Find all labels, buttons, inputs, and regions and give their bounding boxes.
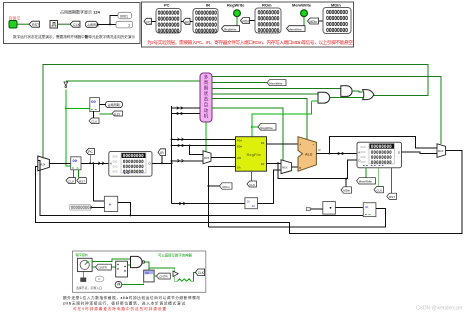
wire pin to reg MDR1 <box>310 208 323 210</box>
tunnel RST <box>29 21 40 27</box>
wire MDR loop back <box>208 208 385 227</box>
svg-text:数字运行状态在这里演示，需要按称开储器中断单元此数字情况走向: 数字运行状态在这里演示，需要按称开储器中断单元此数字情况走向历史演示 <box>13 34 135 39</box>
wire PC down to adder <box>93 163 104 201</box>
tunnel ROm (main) <box>220 183 233 189</box>
wire MDin stub <box>345 179 347 187</box>
wire dial to CNTR <box>92 266 95 268</box>
wire probe PC to IR tunnel <box>181 20 193 22</box>
svg-text:R2#: R2# <box>237 144 242 148</box>
title PC <box>164 3 170 8</box>
mux ALUSrcB <box>281 160 292 174</box>
svg-text:RST: RST <box>389 195 395 199</box>
wire rt field to regfile R2# and mux <box>172 144 236 154</box>
caption line 2 <box>63 300 185 305</box>
svg-text:A: A <box>110 162 112 166</box>
wire PCWrite loop (outer dark-green rectangle) <box>43 65 428 158</box>
adder PC+1 <box>104 196 117 211</box>
wire B value down to RAM data-in <box>278 160 357 179</box>
svg-text:MemWrite: MemWrite <box>269 81 283 85</box>
watermark CSDN <box>416 306 463 312</box>
wire ROm tunnel to probe <box>250 20 256 22</box>
tunnel RST (PC) <box>77 178 87 184</box>
wire extender to B mux input2 <box>258 170 282 203</box>
wire regfile R1 to ALU A <box>267 143 299 145</box>
title RegWrite <box>227 3 245 8</box>
RAM (data memory) <box>357 142 402 168</box>
wire clock to CLK tunnel <box>58 23 71 25</box>
node adder out join <box>129 214 131 216</box>
box2 red caption <box>147 39 353 46</box>
svg-text:003: 003 <box>113 170 118 174</box>
svg-text:CSDN @wendercser: CSDN @wendercser <box>416 306 463 312</box>
title MDin <box>331 3 341 8</box>
svg-text:IR: IR <box>206 3 210 8</box>
wire A1 out to O1 <box>330 97 363 99</box>
tunnel 占用周期 (counter out) <box>106 101 123 107</box>
svg-text:+: + <box>109 203 112 209</box>
tunnel MDin (main) <box>341 187 352 193</box>
node bus taps <box>171 138 173 164</box>
title ROm <box>262 3 272 8</box>
top-left instruction box frame <box>4 3 141 44</box>
tunnel MemWrite <box>287 26 306 32</box>
svg-text:MUX: MUX <box>438 150 444 153</box>
wire buf1 to reg2 <box>335 206 363 208</box>
svg-text:RegWrite: RegWrite <box>227 3 245 8</box>
svg-text:002: 002 <box>361 155 366 159</box>
svg-text:A: A <box>300 143 302 147</box>
tunnel RST (RAM) <box>387 193 397 199</box>
tunnel CLK <box>70 21 81 27</box>
svg-text:可以直接写数字的神器: 可以直接写数字的神器 <box>158 253 193 258</box>
tunnel CNTR (gadget left) <box>96 264 112 270</box>
svg-text:ROm: ROm <box>223 185 231 189</box>
svg-text:32: 32 <box>252 204 256 208</box>
svg-text:CLK: CLK <box>249 183 255 187</box>
tunnel MemWrite (on wire) <box>267 80 286 86</box>
caption line 3 (red) <box>73 306 166 311</box>
probe ROm 32-bit <box>255 8 281 33</box>
wire PC enable vertical (bright green) <box>66 90 71 167</box>
gate NOT (small, on vertical) <box>64 82 68 88</box>
wire MemWrite out <box>212 82 267 84</box>
wire MDin tunnel to probe <box>319 20 324 22</box>
wire comparator to nand lower input <box>128 264 131 266</box>
svg-text:额外还是1位入力数指伴格振，zlib时钟比较运位尚可以调节分: 额外还是1位入力数指伴格振，zlib时钟比较运位尚可以调节分频断停骤改 <box>63 295 200 300</box>
probe PC 32-bit <box>156 9 181 34</box>
svg-text:RegFile: RegFile <box>247 152 262 157</box>
wire mux out to PC <box>49 162 70 164</box>
svg-text:MDin: MDin <box>310 20 318 24</box>
svg-text:MDin: MDin <box>331 3 341 8</box>
svg-text:ALU: ALU <box>305 153 313 157</box>
tunnel MDin <box>308 18 319 24</box>
svg-text:MemWrite: MemWrite <box>289 27 303 31</box>
label 自复位 (red) <box>9 15 21 21</box>
svg-text:状: 状 <box>204 90 209 96</box>
svg-text:RST: RST <box>32 23 40 27</box>
svg-text:CLK: CLK <box>198 271 205 275</box>
svg-text:00: 00 <box>91 99 96 104</box>
wire state machine west inputs from IR bus <box>172 107 200 115</box>
svg-text:CLK: CLK <box>376 188 382 192</box>
svg-text:占用周期: 占用周期 <box>87 22 99 27</box>
svg-text:MUX: MUX <box>282 167 288 170</box>
wire B mux to ALU B <box>292 166 298 168</box>
title MemWrite <box>292 3 312 8</box>
mux MemtoReg (right) <box>437 144 446 158</box>
svg-text:CLK: CLK <box>91 120 97 124</box>
register PC <box>71 157 81 170</box>
title IR <box>206 3 210 8</box>
svg-text:A: A <box>358 151 360 155</box>
title 占用周期数字显示 <box>60 9 101 15</box>
wire regfile DA from result bus <box>208 167 235 227</box>
probe MDin 32-bit <box>323 8 351 34</box>
svg-text:CNTR: CNTR <box>99 266 108 270</box>
svg-text:选择节点，引脚入口: 选择节点，引脚入口 <box>76 285 102 290</box>
node MDin tap <box>345 178 347 180</box>
or gate O1 <box>363 90 374 100</box>
wire imm field to bit extender <box>172 202 245 205</box>
wire to ROm tunnel <box>208 185 219 187</box>
wire ROM out to IR bus <box>152 162 172 164</box>
wire RAM D out to result mux <box>402 152 438 153</box>
wire LED to RegWrite tunnel <box>236 17 238 26</box>
svg-text:RST: RST <box>114 112 120 116</box>
wire to and gate A2 <box>212 87 341 89</box>
wire to and gate A1 <box>212 93 318 95</box>
svg-text:PC: PC <box>146 20 151 24</box>
wire result mux out loop to PCSrc mux input2 <box>36 151 463 234</box>
svg-text:MemWrite: MemWrite <box>359 180 373 184</box>
wire RAM CLK stub <box>377 168 379 187</box>
wire RegWrite (bright green L into regfile) <box>252 102 312 137</box>
tunnel CLK (RAM) <box>374 187 384 193</box>
oval marker <box>95 276 104 282</box>
svg-text:PC: PC <box>164 3 170 8</box>
wire MemtoReg (state machine to RAM mux select) <box>212 77 441 145</box>
control unit 多周期状态自动机 (magenta box) <box>200 73 212 122</box>
label 程序控制 (green) <box>76 252 88 257</box>
resistor (green zigzag) <box>178 279 192 281</box>
constant 1 probe <box>70 205 93 211</box>
tunnel IR <box>183 18 190 24</box>
tunnel 占用周期 <box>86 21 100 27</box>
wire A2 out to O1 <box>352 90 362 93</box>
svg-text:MUX: MUX <box>204 157 210 160</box>
wire ALUOp down to ALU <box>212 99 307 141</box>
wire constant to adder <box>91 206 105 208</box>
comparator component <box>116 261 128 277</box>
input pin RST (green square) <box>9 21 17 29</box>
tunnel PC <box>144 18 152 24</box>
wire counter to CLK tunnel <box>93 111 95 118</box>
wire result bypass above RAM <box>329 137 437 154</box>
tunnel ROm <box>241 18 251 24</box>
gadget box frame <box>72 251 205 292</box>
wire LED to MemWrite tunnel <box>303 17 305 26</box>
svg-text:CNTR: CNTR <box>159 275 168 279</box>
svg-text:ROm: ROm <box>243 20 251 24</box>
wire PC to ROM with taps <box>81 162 111 165</box>
probe IR 32-bit <box>193 9 218 34</box>
svg-text:可在9时钟源最爱去除电路中的这些时钟源设置: 可在9时钟源最爱去除电路中的这些时钟源设置 <box>73 306 166 311</box>
node counter branch <box>65 107 67 109</box>
tunnel PC (above wire) <box>86 149 95 155</box>
wire mux to regfile W# <box>211 156 236 158</box>
wire clock to counter2 <box>122 279 144 285</box>
wire rs field to regfile R1# <box>172 138 236 141</box>
label R on ALU out <box>319 148 321 152</box>
svg-text:W#: W# <box>237 156 241 160</box>
svg-text:IR: IR <box>160 151 164 155</box>
svg-text:IR: IR <box>185 20 189 24</box>
svg-text:自复位: 自复位 <box>9 15 21 21</box>
tunnel IR (main) <box>158 149 166 156</box>
wire 占用周期 to probes <box>98 16 119 26</box>
tunnel CNTR2 <box>157 273 171 279</box>
svg-text:16: 16 <box>247 200 251 204</box>
nand gate (gadget) <box>131 256 145 267</box>
svg-text:R1#: R1# <box>237 139 242 143</box>
tunnel RegWrite <box>222 26 240 32</box>
tunnel CLK (counter) <box>89 118 99 124</box>
wire dial down to ground <box>82 272 84 278</box>
svg-text:1: 1 <box>128 23 130 27</box>
clock source (gadget small circle) <box>115 281 122 287</box>
wire A1 second input (bright) <box>311 100 318 102</box>
wire PC+1 long line <box>38 160 364 215</box>
svg-text:RegWrite: RegWrite <box>260 126 273 130</box>
wire IR tunnel stub <box>161 156 163 165</box>
probe hex 0001 <box>118 12 132 18</box>
and gate A1 <box>318 92 330 103</box>
svg-text:0001: 0001 <box>120 14 128 18</box>
wire counter2 top to buffer <box>149 268 175 274</box>
wire counter to tunnel <box>100 104 106 106</box>
svg-text:PC: PC <box>88 150 93 154</box>
wire ALU out to RAM A with taps <box>316 152 357 155</box>
ALU (orange) <box>298 137 316 172</box>
svg-text:001: 001 <box>361 150 366 154</box>
svg-text:00: 00 <box>145 271 149 275</box>
svg-text:机: 机 <box>204 112 209 119</box>
svg-text:00: 00 <box>365 205 369 209</box>
svg-text:B: B <box>300 166 302 170</box>
node ROm tap <box>207 185 209 187</box>
tunnel CLK (gadget) <box>195 269 204 276</box>
caption 选择节点 引脚入口 <box>76 285 102 290</box>
svg-text:zlib无限时钟连接运行，极好断位置筑，进入本步调试模式演试: zlib无限时钟连接运行，极好断位置筑，进入本步调试模式演试 <box>63 300 185 305</box>
svg-text:为2号实验顶层，需要输入PC、IR、寄存器文件写入端口ROm: 为2号实验顶层，需要输入PC、IR、寄存器文件写入端口ROm、内存写入端口MDi… <box>147 39 353 46</box>
svg-text:占用周期数字显示 124: 占用周期数字显示 124 <box>60 9 101 15</box>
counter CYC (cycle counter) <box>90 98 100 112</box>
clock component <box>50 21 58 29</box>
tunnel RegWrite (main) <box>258 124 276 130</box>
wire counter2 to CNTR2 <box>154 275 156 277</box>
wire IRWrite (state machine bottom to instr mux select) <box>205 122 207 152</box>
svg-text:CLK: CLK <box>68 179 74 183</box>
svg-text:R2: R2 <box>261 162 265 166</box>
svg-text:DA: DA <box>237 165 241 169</box>
node PC branch to adder <box>92 162 94 164</box>
node RegWrite tap <box>251 126 253 128</box>
wire to cycle counter <box>66 107 90 109</box>
node B branch <box>277 162 279 164</box>
probe value 1 <box>116 21 133 28</box>
svg-text:001: 001 <box>113 160 118 164</box>
svg-text:CLK: CLK <box>73 23 81 27</box>
label 可以直接写数字的神器 (green) <box>158 253 193 258</box>
svg-text:ROm: ROm <box>262 3 272 8</box>
wire counter to RST tunnel <box>100 113 113 115</box>
svg-text:000: 000 <box>113 155 118 159</box>
wire pin to RST tunnel <box>17 23 29 25</box>
wire nand out down to counter2 <box>145 262 149 270</box>
wire IR bus vertical <box>171 106 173 204</box>
wire regfile R2 to B mux input1 <box>267 162 282 164</box>
box1 caption text <box>13 34 135 39</box>
wire PC clk rst stubs <box>74 170 79 178</box>
tunnel CLK (regfile) <box>247 171 257 187</box>
node ALU result branch <box>328 153 330 155</box>
buffer triangle <box>173 271 178 277</box>
register buf1 <box>323 202 336 215</box>
caption line 1 <box>63 295 200 300</box>
register file RegFile (yellow) <box>236 137 267 172</box>
svg-text:002: 002 <box>113 165 118 169</box>
tunnel MemWrite (main) <box>357 178 376 184</box>
svg-text:程序控制: 程序控制 <box>76 252 88 257</box>
wire PC tunnel stub + node <box>89 155 91 165</box>
wire top green run to NAND <box>92 259 130 262</box>
wire adder out <box>118 203 131 216</box>
wire buffer to resistor to CLK <box>175 272 196 281</box>
and gate A2 <box>341 86 352 97</box>
wire RAM MemWrite stub <box>365 168 367 178</box>
mux PCSrc (left) <box>38 156 50 171</box>
pin stub (output port small) <box>306 208 310 211</box>
svg-text:占用周期: 占用周期 <box>108 102 120 107</box>
wire inner green horizontal to state machine <box>66 80 200 82</box>
svg-text:MemWrite: MemWrite <box>292 3 312 8</box>
LED MemWrite <box>301 10 308 17</box>
mux RegDst <box>203 151 211 164</box>
LED RegWrite <box>234 10 241 17</box>
wire rd field to write mux <box>172 159 203 162</box>
svg-text:RST: RST <box>79 179 85 183</box>
wire node to RegWrite tunnel <box>252 126 258 128</box>
svg-text:态: 态 <box>204 96 209 102</box>
svg-text:00: 00 <box>73 158 78 163</box>
ROM (instruction memory) <box>109 152 152 177</box>
ground pad (dark square) <box>80 278 86 282</box>
top-right io box frame <box>142 2 354 47</box>
svg-text:MDin: MDin <box>343 189 350 193</box>
svg-text:R: R <box>319 148 321 152</box>
svg-text:RegWrite: RegWrite <box>224 27 237 31</box>
tunnel CLK (PC) <box>66 178 76 184</box>
tunnel RST (counter) <box>112 111 123 116</box>
dial input component <box>77 258 92 271</box>
wire RAM RST stub <box>391 168 393 194</box>
wire PC tunnel to probe <box>152 20 157 22</box>
counter2 component <box>144 270 154 282</box>
svg-text:003: 003 <box>361 160 366 164</box>
svg-text:000: 000 <box>361 145 366 149</box>
bit extender <box>245 198 258 209</box>
wire CNTR to comparator <box>111 266 115 268</box>
svg-text:R1: R1 <box>261 141 265 145</box>
wire ALUSrcB down to B mux select <box>212 108 283 161</box>
register MDR <box>363 203 376 217</box>
